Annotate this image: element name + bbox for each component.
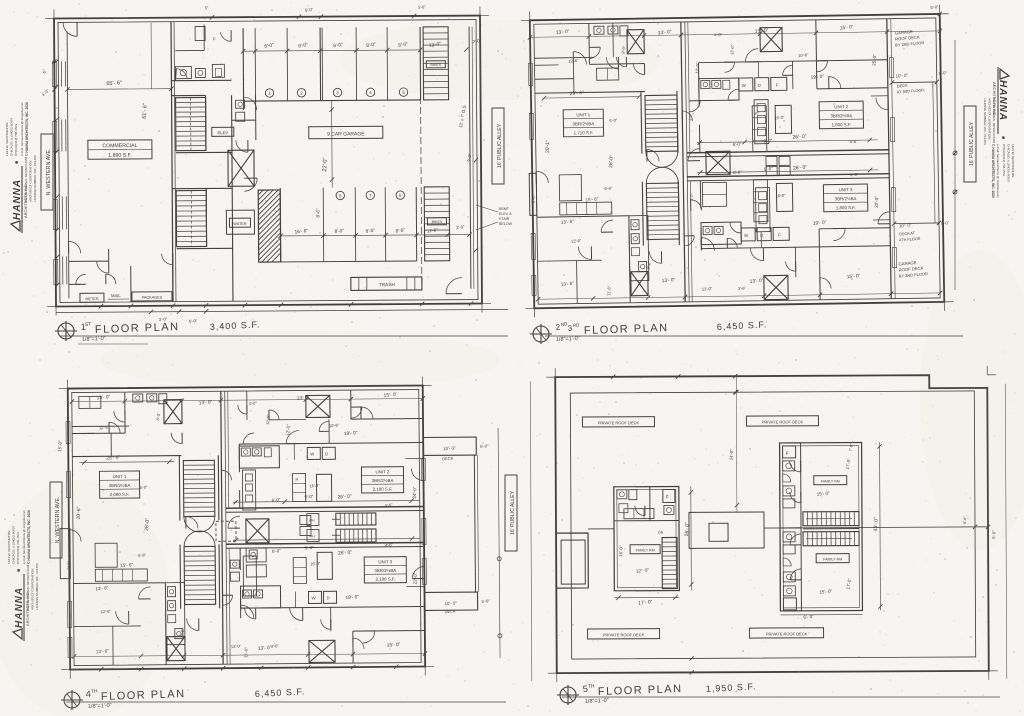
plan 2 right closet walls lower	[794, 247, 796, 277]
unit 1 label box	[563, 109, 603, 137]
svg-text:BSMT: BSMT	[499, 207, 510, 211]
plan 3 more arcs	[171, 433, 182, 444]
plan 1 corridor door	[162, 254, 173, 265]
plan 2 unit separation walls	[687, 150, 889, 153]
plan 2 stair upper S1	[645, 95, 678, 151]
svg-text:4TH FLOOR: 4TH FLOOR	[899, 237, 921, 243]
svg-text:1,800 S.F.: 1,800 S.F.	[836, 205, 856, 210]
svg-text:9'-6": 9'-6"	[963, 516, 967, 524]
svg-text:1/8"=1'-0": 1/8"=1'-0"	[585, 698, 609, 705]
svg-text:65'- 6": 65'- 6"	[106, 80, 122, 87]
svg-text:5'-0": 5'-0"	[189, 318, 198, 324]
plan 3 bottom border ticks	[99, 667, 103, 671]
plan 4 dim 26-0 rot	[690, 486, 693, 590]
plan 3 stair lower S2	[184, 546, 216, 604]
plan 1 core top bath fixtures	[175, 67, 191, 79]
plan 3 stair landing arcs	[184, 516, 215, 532]
plan 2 left wall sills	[528, 63, 532, 85]
svg-text:13'- 0": 13'- 0"	[96, 394, 110, 401]
svg-text:11'-6": 11'-6"	[606, 285, 612, 296]
svg-text:12'-6": 12'-6"	[571, 238, 582, 244]
svg-text:3'-6": 3'-6"	[271, 643, 280, 649]
svg-text:5'-0": 5'-0"	[481, 598, 490, 604]
svg-text:5'-0": 5'-0"	[930, 4, 939, 10]
plan 2 appliance row upper WDF	[739, 78, 753, 91]
svg-text:D: D	[758, 83, 761, 88]
plan 2 corridor wall lower	[699, 181, 701, 209]
svg-text:WH: WH	[309, 534, 315, 538]
plan 1 water room	[226, 210, 254, 234]
plan 2 left bay window	[529, 173, 537, 215]
plan 3 closets right of elevator	[246, 565, 266, 577]
plan 3 left wall sills	[66, 422, 70, 444]
plan 3 bedroom walls bottom right	[241, 606, 425, 608]
svg-text:AT 3RD FLOOR: AT 3RD FLOOR	[897, 88, 925, 94]
plan 1 garage right wall	[469, 27, 471, 289]
plan 3 elevator	[246, 519, 269, 543]
svg-text:15'- 0": 15'- 0"	[387, 642, 401, 649]
plan 3 left lower rooms	[73, 582, 165, 585]
plan 1 garage door arc bottom right	[446, 278, 462, 294]
svg-text:R: R	[755, 112, 758, 116]
svg-text:3BR/2½BA: 3BR/2½BA	[835, 196, 857, 201]
plan 1 bottom border ticks	[99, 304, 103, 308]
plan 3 stair upper S1	[183, 460, 214, 516]
svg-text:6: 6	[399, 193, 402, 198]
plan 1 vestibule walls upper	[232, 119, 256, 121]
plan 3 center bottom fixture stack	[246, 548, 266, 562]
svg-text:3,400 S.F.: 3,400 S.F.	[210, 319, 261, 332]
plan 3 closet stack lower	[293, 558, 306, 584]
plan 3 right circles	[497, 557, 501, 561]
svg-text:15'- 0": 15'- 0"	[383, 392, 397, 399]
plan 2 spine fixture stack upper	[754, 100, 769, 144]
svg-text:UNIT 2: UNIT 2	[834, 104, 848, 109]
plan 2 top dim line	[530, 31, 940, 37]
plan 4 block B family rm upper	[814, 476, 847, 485]
svg-text:4'-6": 4'-6"	[850, 172, 859, 178]
plan 3 top dim line	[72, 398, 423, 401]
svg-text:■: ■	[1000, 136, 1006, 139]
unit 2 label box	[819, 101, 863, 129]
plan 2 upper bath door arcs	[728, 89, 739, 100]
plan 4 centerline left	[588, 528, 614, 530]
svg-text:16'- 6": 16'- 6"	[294, 228, 308, 236]
svg-text:5'-0": 5'-0"	[609, 117, 618, 123]
svg-text:MAIL: MAIL	[111, 293, 121, 298]
svg-text:ARCHITECT CORPORATION: ARCHITECT CORPORATION	[987, 98, 991, 139]
svg-text:DN: DN	[658, 531, 664, 535]
unit 3 label box plan 3	[364, 557, 406, 583]
svg-text:3'-6": 3'-6"	[418, 4, 427, 10]
plan 2 corner extensions	[521, 19, 530, 21]
svg-text:12'-0": 12'-0"	[285, 424, 291, 436]
svg-text:20'-1": 20'-1"	[545, 140, 551, 153]
svg-text:12'-6": 12'-6"	[100, 608, 111, 614]
N WESTERN AVE box plan1	[41, 134, 53, 210]
plan 2 dim 26-0 upper	[697, 140, 878, 143]
plan 2 unit1 dim 29-6	[544, 97, 639, 98]
plan 3 laundry boxes center	[300, 515, 311, 524]
plan 3 deck fence	[474, 455, 475, 592]
plan 3 kitchen island lower	[317, 552, 332, 579]
svg-text:CHICAGO, ILLINOIS 60607: CHICAGO, ILLINOIS 60607	[10, 117, 14, 156]
plan 1 property dash line	[420, 27, 422, 289]
svg-text:26'- 0": 26'- 0"	[338, 550, 353, 557]
plan 1 lower stalls	[258, 190, 281, 262]
svg-text:DECK: DECK	[444, 608, 456, 614]
plan 2 top right corner ticks	[937, 12, 941, 16]
svg-text:W: W	[742, 83, 746, 88]
svg-text:22'-0": 22'-0"	[322, 157, 329, 171]
plan 1 stall dim line 8ft	[243, 50, 420, 51]
svg-text:1,800 S.F.: 1,800 S.F.	[832, 122, 852, 127]
svg-text:5'-0": 5'-0"	[938, 70, 947, 76]
plan 2 outer wall	[530, 14, 944, 308]
svg-text:R: R	[296, 478, 299, 482]
svg-text:1,710 S.F.: 1,710 S.F.	[574, 130, 594, 135]
plan 4 block A outline	[614, 486, 680, 590]
plan 2 small wall stubs	[572, 65, 574, 93]
svg-text:4'-6": 4'-6"	[849, 139, 858, 145]
svg-text:LICENSE NUMBER 184 - 001483: LICENSE NUMBER 184 - 001483	[33, 155, 37, 202]
plan 1 bottom-left rooms walls	[69, 260, 109, 262]
plan 3 appliance row lower	[308, 591, 321, 603]
svg-text:PRIVATE ROOF DECK: PRIVATE ROOF DECK	[598, 420, 640, 425]
svg-text:5'-0": 5'-0"	[480, 443, 489, 449]
svg-text:PROFESSIONAL DESIGN FIRM: PROFESSIONAL DESIGN FIRM	[992, 98, 996, 144]
svg-text:1: 1	[268, 91, 271, 96]
svg-text:6'-0": 6'-0"	[271, 497, 281, 503]
svg-text:4'-6": 4'-6"	[385, 542, 394, 548]
svg-text:13'- 0": 13'- 0"	[662, 277, 676, 284]
plan 4 center connector	[689, 512, 764, 548]
svg-text:16' PUBLIC ALLEY: 16' PUBLIC ALLEY	[497, 123, 503, 168]
svg-text:6,450 S.F.: 6,450 S.F.	[717, 319, 768, 332]
svg-text:F: F	[786, 451, 789, 456]
plan 3 bath fixtures extra	[230, 560, 239, 568]
svg-text:10'- 0": 10'- 0"	[444, 600, 457, 606]
plan 1 bike rack top	[423, 27, 449, 100]
svg-text:F: F	[776, 82, 779, 87]
plan 2 spine second wall	[688, 22, 690, 153]
plan 4 dim line vertical	[735, 376, 738, 512]
16 public alley box plan 2	[964, 106, 976, 182]
svg-text:26'- 0": 26'- 0"	[792, 134, 807, 141]
plan 1 garage door arcs	[244, 97, 257, 110]
svg-text:1/8"=1'-0": 1/8"=1'-0"	[82, 336, 106, 343]
svg-text:ARCHITECT CORPORATION: ARCHITECT CORPORATION	[29, 161, 33, 202]
svg-text:9'-6": 9'-6"	[646, 260, 652, 269]
svg-text:PRIVATE ROOF DECK: PRIVATE ROOF DECK	[766, 631, 808, 636]
plan 4 right outside line	[1005, 384, 1007, 679]
plan 3 closet stack upper	[292, 474, 305, 502]
svg-text:28'-0": 28'-0"	[608, 155, 615, 168]
svg-text:1644 W. WASHINGTON: 1644 W. WASHINGTON	[1011, 144, 1015, 177]
plan 2 bath stack center-left	[629, 216, 649, 281]
svg-text:8'-0": 8'-0"	[298, 42, 309, 49]
plan 4 block A stair	[662, 537, 677, 588]
plan 4 block B fixture column lower	[780, 528, 801, 611]
svg-text:10'-6": 10'-6"	[329, 422, 340, 428]
plan 4 block B outline	[780, 443, 863, 611]
svg-text:ELEV: ELEV	[217, 130, 228, 135]
svg-text:6'-8": 6'-8"	[604, 185, 613, 191]
plan 2 deck ticks	[890, 80, 894, 84]
16 public alley box plan 3	[505, 475, 517, 551]
plan 3 kitchen counters	[95, 543, 117, 567]
plan 2 upper-left room walls	[589, 63, 644, 66]
svg-text:METER: METER	[85, 297, 99, 301]
svg-text:HANNA: HANNA	[997, 80, 1008, 121]
private roof deck label BR	[750, 628, 824, 638]
svg-text:e-mail: hannaarchitects @ sbcg: e-mail: hannaarchitects @ sbcglobal.net	[996, 144, 1000, 198]
plan 3 center stairs lower run	[336, 529, 376, 542]
svg-text:F: F	[213, 36, 216, 41]
plan 3 title compass	[61, 690, 83, 710]
plan 1 garage center dim 22-0	[331, 101, 334, 188]
plan 2 deck wall	[887, 19, 891, 299]
commercial label box	[88, 140, 152, 159]
plan 3 deck lower	[425, 592, 478, 610]
svg-text:1/8"=1'-0": 1/8"=1'-0"	[556, 336, 580, 343]
svg-text:STAIR: STAIR	[499, 217, 510, 221]
svg-text:4: 4	[369, 90, 372, 95]
plan 1 commercial dim line 65-6	[68, 88, 172, 91]
plan 1 lower stall numbers	[336, 191, 344, 199]
plan 3 right wall sills	[421, 458, 425, 480]
svg-text:2: 2	[300, 91, 303, 96]
svg-text:6": 6"	[41, 69, 47, 74]
svg-text:3: 3	[336, 90, 339, 95]
svg-text:15'- 0": 15'- 0"	[840, 24, 854, 31]
plan 2 bottom dim line	[538, 293, 940, 299]
plan 1 meter room	[80, 293, 104, 302]
svg-text:15'- 0": 15'- 0"	[819, 589, 833, 595]
svg-text:5'-0": 5'-0"	[941, 220, 950, 226]
plan 3 top room band	[72, 425, 129, 427]
9 car garage label	[309, 126, 383, 139]
svg-text:10'- 0": 10'- 0"	[443, 445, 456, 451]
svg-text:7'-0": 7'-0"	[848, 442, 854, 451]
svg-text:3BR/2½BA: 3BR/2½BA	[573, 121, 595, 126]
svg-text:16'-0": 16'-0"	[774, 115, 785, 121]
plan 3 bath block lower center	[240, 586, 280, 608]
plan 4 title compass	[557, 685, 579, 705]
plan 4 centerline right	[764, 527, 988, 528]
svg-text:3BR/2½BA: 3BR/2½BA	[374, 568, 396, 573]
svg-text:10'- 0": 10'- 0"	[899, 222, 912, 228]
plan 2 stair lower S2	[646, 183, 679, 239]
plan 1 top bath door	[220, 32, 231, 41]
unit 3 label box	[823, 184, 867, 212]
plan 4 block B stairs	[803, 512, 859, 526]
plan 4 block B fixture column upper	[780, 443, 801, 528]
plan 4 inner roof edge	[570, 391, 975, 659]
svg-text:LICENSE NUMBER 184 - 001483: LICENSE NUMBER 184 - 001483	[983, 98, 987, 145]
svg-text:TRASH: TRASH	[379, 282, 396, 288]
plan 3 dim 26-0 lower	[233, 539, 420, 541]
svg-text:3BR/2½BA: 3BR/2½BA	[830, 113, 852, 118]
plan 3 bath block upper center	[239, 446, 279, 468]
svg-text:PACKAGES: PACKAGES	[142, 296, 163, 300]
svg-text:3'-6": 3'-6"	[738, 285, 747, 291]
plan 1 left wall sill marks	[52, 61, 56, 86]
plan 4 outer parapet	[555, 375, 989, 673]
svg-text:16'-0": 16'-0"	[775, 193, 786, 199]
svg-text:TH: TH	[588, 684, 595, 690]
plan 2 spine fixture stack lower	[755, 188, 770, 232]
svg-text:D: D	[325, 451, 328, 456]
plan 1 lower left interior arcs	[97, 261, 109, 273]
svg-text:16' PUBLIC ALLEY: 16' PUBLIC ALLEY	[510, 490, 516, 535]
svg-text:29'- 6": 29'- 6"	[106, 455, 121, 462]
svg-text:D: D	[327, 595, 330, 600]
plan 2 window sills right wall	[889, 58, 893, 78]
svg-text:16'-0": 16'-0"	[309, 483, 320, 489]
svg-text:15'- 6": 15'- 6"	[585, 196, 599, 202]
svg-text:4'-0": 4'-0"	[249, 400, 258, 406]
svg-text:61'- 6": 61'- 6"	[142, 103, 149, 119]
svg-text:PRIVATE ROOF DECK: PRIVATE ROOF DECK	[762, 419, 804, 424]
svg-text:FAMILY RM: FAMILY RM	[636, 548, 655, 552]
plan 3 upper-left closet	[79, 396, 101, 408]
plan 4 left notch	[556, 533, 588, 588]
plan 1 corner extensions	[45, 18, 54, 20]
plan 4 top ticks	[611, 375, 615, 379]
plan 3 top-left skylight	[164, 400, 182, 424]
plan 2 deck rail	[933, 82, 935, 223]
plan 1 stall numbers 1-5	[265, 89, 273, 97]
plan 1 core lower stair S2	[176, 190, 206, 246]
plan 1 left window band	[67, 31, 69, 298]
svg-text:17'-0": 17'-0"	[845, 457, 852, 469]
svg-text:UNIT 3: UNIT 3	[378, 559, 392, 564]
plan 2 dim 26-0 lower	[697, 170, 878, 173]
plan 2 right closet walls upper	[791, 61, 793, 89]
svg-text:HANNA: HANNA	[12, 179, 23, 220]
plan 3 dim 26-0 upper	[233, 501, 420, 503]
plan 1 core upper stair S1	[176, 97, 206, 150]
svg-text:17'-0": 17'-0"	[845, 577, 852, 589]
svg-text:PRIVATE ROOF DECK: PRIVATE ROOF DECK	[603, 632, 645, 637]
svg-text:8'-0": 8'-0"	[333, 42, 344, 49]
svg-text:PROFESSIONAL DESIGN FIRM: PROFESSIONAL DESIGN FIRM	[24, 156, 28, 202]
plan 1 lower dim line	[281, 235, 470, 236]
svg-text:8'-6": 8'-6"	[315, 208, 320, 218]
svg-text:2'-0": 2'-0"	[456, 224, 465, 230]
svg-text:24'-0": 24'-0"	[729, 449, 734, 460]
plan 3 bath stack center-left	[165, 583, 185, 645]
plan 2 door arcs upper left	[573, 51, 586, 64]
private roof deck label BL	[588, 629, 660, 639]
plan 3 central spine wall	[221, 391, 223, 664]
svg-text:8'-0": 8'-0"	[155, 412, 161, 421]
svg-text:19'- 0": 19'- 0"	[810, 74, 824, 81]
svg-text:15'-0": 15'-0"	[57, 440, 62, 452]
plan 2 kitchen island lower	[776, 183, 792, 211]
svg-text:7: 7	[369, 193, 372, 198]
plan 2 title compass	[530, 324, 552, 344]
plan 3 bedroom walls top right	[239, 442, 423, 444]
svg-text:6'-8": 6'-8"	[138, 552, 147, 558]
svg-text:BIKES: BIKES	[432, 220, 443, 224]
plan 1 top dim marks	[297, 15, 301, 19]
svg-text:8: 8	[339, 193, 342, 198]
svg-text:5": 5"	[205, 5, 210, 10]
plan 3 small wall stubs	[110, 433, 112, 456]
plan 1 title underline	[60, 335, 508, 337]
svg-text:FAMILY RM: FAMILY RM	[821, 479, 840, 483]
plan 4 block A bottom dim	[614, 596, 679, 598]
plan 2 kitchen counters left	[559, 175, 581, 201]
plan 4 left outside line	[530, 381, 532, 681]
svg-text:6'-0": 6'-0"	[733, 169, 743, 175]
plan 3 unit separation walls	[226, 506, 424, 508]
svg-text:1,890 S.F.: 1,890 S.F.	[108, 153, 131, 159]
plan 1 left top ticks	[52, 59, 56, 63]
plan 2 interior wall A	[535, 92, 645, 94]
svg-text:N. WESTERN AVE.: N. WESTERN AVE.	[46, 149, 52, 196]
plan 1 trash enclosure	[351, 277, 422, 290]
plan 1 garage top parking stalls	[242, 28, 245, 101]
svg-text:9'-0": 9'-0"	[304, 494, 314, 500]
plan 4 block A fixtures	[617, 490, 627, 499]
plan 1 top-left door	[63, 22, 77, 36]
svg-text:WH: WH	[309, 518, 315, 522]
HANNA stamp plan 1	[5, 102, 37, 233]
svg-text:26'- 0": 26'- 0"	[793, 165, 808, 172]
svg-text:12'-6": 12'-6"	[99, 424, 110, 430]
plan 2 bath block lower center	[701, 222, 741, 245]
plan 2 bottom skylight center	[764, 275, 788, 299]
plan 3 spine second wall	[228, 391, 229, 508]
plan 3 bottom skylight center	[309, 640, 335, 662]
plan 2 kitchen island upper	[775, 105, 791, 133]
svg-text:12'-6": 12'-6"	[568, 58, 579, 64]
plan 3 spine fixture stack lower	[243, 556, 256, 596]
svg-text:2,180 S.F.: 2,180 S.F.	[375, 577, 395, 582]
svg-text:26'- 0": 26'- 0"	[337, 494, 352, 501]
svg-text:13'-0": 13'-0"	[702, 286, 713, 292]
svg-text:8'-0": 8'-0"	[365, 228, 375, 235]
plan 4 block A kitchen row	[624, 509, 654, 519]
16 public alley box plan 1	[492, 108, 504, 184]
HANNA stamp plan 3	[7, 510, 39, 641]
svg-text:e-mail: hannaarchitects @ sbcg: e-mail: hannaarchitects @ sbcglobal.net	[20, 102, 24, 156]
plan 3 title underline	[66, 701, 506, 703]
plan 4 block A F closet	[663, 489, 675, 502]
svg-text:16'-0": 16'-0"	[618, 545, 623, 557]
svg-text:1,950 S.F.: 1,950 S.F.	[706, 681, 757, 694]
plan 3 wh boxes near stairs	[307, 513, 319, 525]
plan 3 corridor wall lower	[239, 548, 241, 570]
plan 2 corridor doors center	[647, 149, 659, 161]
svg-text:15'- 0": 15'- 0"	[816, 491, 830, 497]
svg-text:10'-6": 10'-6"	[798, 52, 809, 58]
svg-text:4'-6": 4'-6"	[384, 502, 393, 508]
svg-text:BELOW: BELOW	[499, 222, 513, 226]
svg-text:6,450 S.F.: 6,450 S.F.	[255, 686, 306, 699]
svg-text:RD: RD	[573, 322, 581, 328]
plan 3 spine fixture stack upper	[242, 470, 255, 510]
svg-text:15'- 0": 15'- 0"	[847, 273, 861, 280]
svg-text:4'-0": 4'-0"	[41, 88, 51, 98]
plan 2 appliance row lower	[741, 228, 755, 241]
svg-text:22'-0": 22'-0"	[874, 196, 880, 208]
plan 2 bath block upper center	[699, 78, 739, 101]
plan 2 living room arcs	[876, 98, 888, 110]
